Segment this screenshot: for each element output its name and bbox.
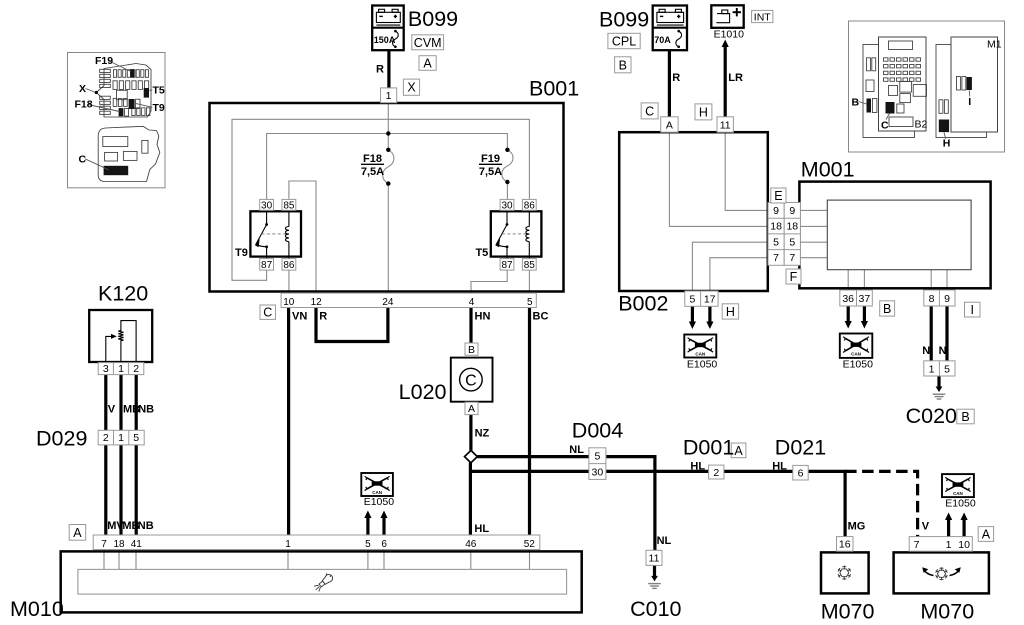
svg-text:5: 5 <box>789 236 795 248</box>
svg-text:37: 37 <box>859 293 871 305</box>
svg-text:L020: L020 <box>399 380 447 404</box>
svg-text:D001: D001 <box>683 435 734 459</box>
svg-text:B: B <box>961 410 969 424</box>
svg-text:NB: NB <box>138 520 154 532</box>
svg-text:M070: M070 <box>920 599 974 623</box>
svg-text:17: 17 <box>704 294 716 306</box>
svg-text:36: 36 <box>842 293 854 305</box>
svg-text:X: X <box>407 81 416 95</box>
svg-text:C010: C010 <box>630 597 681 621</box>
svg-text:VN: VN <box>292 311 307 323</box>
svg-text:B: B <box>619 58 627 72</box>
svg-text:B: B <box>468 344 475 356</box>
svg-text:5: 5 <box>527 297 533 308</box>
svg-text:1: 1 <box>118 432 124 444</box>
svg-text:C: C <box>465 373 477 390</box>
svg-text:D029: D029 <box>36 426 87 450</box>
svg-text:HN: HN <box>475 311 491 323</box>
svg-text:A: A <box>982 528 991 542</box>
svg-text:HL: HL <box>772 461 787 473</box>
svg-text:10: 10 <box>958 539 970 551</box>
svg-text:12: 12 <box>311 297 323 308</box>
svg-text:18: 18 <box>770 221 782 233</box>
svg-text:7: 7 <box>773 252 779 264</box>
svg-text:K120: K120 <box>98 281 148 305</box>
svg-text:4: 4 <box>469 297 475 308</box>
svg-text:9: 9 <box>789 205 795 217</box>
svg-text:C020: C020 <box>906 404 957 428</box>
svg-text:11: 11 <box>649 553 660 565</box>
svg-text:E: E <box>774 189 782 203</box>
svg-text:18: 18 <box>113 539 125 550</box>
svg-text:10: 10 <box>283 297 295 308</box>
svg-text:87: 87 <box>261 260 273 271</box>
svg-text:7: 7 <box>101 539 107 550</box>
svg-text:F18: F18 <box>363 153 382 165</box>
svg-text:MG: MG <box>848 521 866 533</box>
svg-text:E1050: E1050 <box>843 359 874 371</box>
svg-text:NL: NL <box>569 444 584 456</box>
svg-text:E1050: E1050 <box>945 497 976 509</box>
svg-text:52: 52 <box>524 539 536 550</box>
svg-text:85: 85 <box>524 260 536 271</box>
svg-text:3: 3 <box>103 363 109 375</box>
svg-text:18: 18 <box>786 221 798 233</box>
svg-text:1: 1 <box>118 363 124 375</box>
svg-text:1: 1 <box>285 539 291 550</box>
svg-text:CAN: CAN <box>851 352 861 357</box>
svg-text:D004: D004 <box>572 418 623 442</box>
svg-text:7: 7 <box>914 539 920 551</box>
svg-text:16: 16 <box>839 539 851 551</box>
svg-text:5: 5 <box>594 451 600 463</box>
svg-text:CPL: CPL <box>612 35 636 49</box>
svg-text:11: 11 <box>720 119 731 131</box>
svg-text:1: 1 <box>929 363 935 375</box>
svg-text:7: 7 <box>789 252 795 264</box>
svg-text:7,5A: 7,5A <box>361 166 384 178</box>
svg-text:BC: BC <box>533 311 549 323</box>
svg-text:CAN: CAN <box>695 351 705 356</box>
svg-text:C: C <box>79 154 87 166</box>
svg-text:C: C <box>881 120 889 132</box>
svg-text:F18: F18 <box>75 99 93 111</box>
svg-text:F: F <box>790 270 798 284</box>
svg-text:B001: B001 <box>529 76 579 100</box>
svg-text:B099: B099 <box>408 7 458 31</box>
svg-text:5: 5 <box>944 363 950 375</box>
svg-text:V: V <box>922 520 930 532</box>
svg-text:H: H <box>699 105 708 119</box>
svg-text:A: A <box>73 526 82 540</box>
svg-text:N: N <box>922 345 930 357</box>
svg-text:I: I <box>968 96 971 108</box>
svg-text:E1010: E1010 <box>714 29 745 41</box>
svg-text:T9: T9 <box>153 102 165 114</box>
svg-text:LR: LR <box>728 72 743 84</box>
svg-text:46: 46 <box>465 539 477 550</box>
svg-text:B002: B002 <box>618 291 668 315</box>
svg-text:C: C <box>645 104 654 118</box>
svg-text:6: 6 <box>381 539 387 550</box>
svg-text:CAN: CAN <box>372 490 382 495</box>
svg-text:9: 9 <box>773 205 779 217</box>
svg-text:7,5A: 7,5A <box>479 166 502 178</box>
svg-text:86: 86 <box>524 200 536 211</box>
svg-text:E1050: E1050 <box>687 358 718 370</box>
svg-text:B: B <box>883 302 891 316</box>
svg-text:M001: M001 <box>801 158 855 182</box>
svg-text:5: 5 <box>689 294 695 306</box>
svg-text:NZ: NZ <box>475 427 490 439</box>
svg-text:87: 87 <box>501 260 513 271</box>
svg-text:A: A <box>423 57 432 71</box>
svg-text:30: 30 <box>261 200 273 211</box>
svg-text:T5: T5 <box>153 85 165 97</box>
svg-text:H: H <box>726 305 735 319</box>
svg-text:2: 2 <box>713 467 719 479</box>
svg-text:R: R <box>319 311 327 323</box>
svg-text:5: 5 <box>133 432 139 444</box>
svg-text:5: 5 <box>773 236 779 248</box>
svg-text:H: H <box>943 138 951 150</box>
svg-text:T9: T9 <box>235 247 248 259</box>
svg-text:CVM: CVM <box>414 36 442 50</box>
svg-text:2: 2 <box>133 363 139 375</box>
svg-text:24: 24 <box>382 297 394 308</box>
svg-text:N: N <box>939 345 947 357</box>
svg-text:HL: HL <box>474 523 489 535</box>
svg-text:M1: M1 <box>987 39 1002 51</box>
svg-text:30: 30 <box>592 467 604 479</box>
svg-text:C: C <box>263 306 272 320</box>
svg-text:2: 2 <box>103 432 109 444</box>
svg-text:B099: B099 <box>599 7 649 31</box>
svg-text:X: X <box>79 83 86 95</box>
svg-text:HL: HL <box>690 461 705 473</box>
svg-text:30: 30 <box>501 200 513 211</box>
svg-text:CAN: CAN <box>953 491 963 496</box>
svg-text:A: A <box>666 119 673 131</box>
svg-text:86: 86 <box>283 260 295 271</box>
svg-text:INT: INT <box>754 11 772 23</box>
svg-text:41: 41 <box>131 539 143 550</box>
svg-text:F19: F19 <box>481 153 500 165</box>
svg-text:M010: M010 <box>10 597 64 621</box>
svg-text:A: A <box>468 403 475 415</box>
svg-text:B: B <box>852 97 860 109</box>
svg-text:B2: B2 <box>915 119 928 131</box>
svg-text:R: R <box>672 72 680 84</box>
svg-text:9: 9 <box>944 293 950 305</box>
svg-text:70A: 70A <box>654 35 671 45</box>
svg-text:D021: D021 <box>775 435 826 459</box>
svg-text:M070: M070 <box>821 599 875 623</box>
svg-text:I: I <box>971 303 974 317</box>
svg-text:E1050: E1050 <box>364 496 395 508</box>
svg-text:85: 85 <box>283 200 295 211</box>
svg-text:NB: NB <box>138 404 154 416</box>
svg-text:T5: T5 <box>475 247 488 259</box>
svg-text:R: R <box>376 64 384 76</box>
svg-text:A: A <box>734 444 743 458</box>
svg-text:1: 1 <box>386 90 392 102</box>
svg-text:6: 6 <box>798 467 804 479</box>
svg-text:F19: F19 <box>95 55 113 67</box>
svg-text:5: 5 <box>365 539 371 550</box>
svg-text:V: V <box>108 404 116 416</box>
svg-text:8: 8 <box>929 293 935 305</box>
svg-text:1: 1 <box>946 539 952 551</box>
svg-text:NL: NL <box>657 535 672 547</box>
